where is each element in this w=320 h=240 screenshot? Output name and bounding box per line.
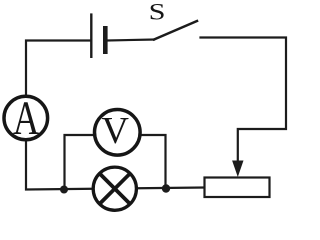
svg-text:V: V [101, 110, 129, 152]
svg-text:S: S [149, 0, 166, 24]
svg-text:A: A [13, 92, 40, 145]
